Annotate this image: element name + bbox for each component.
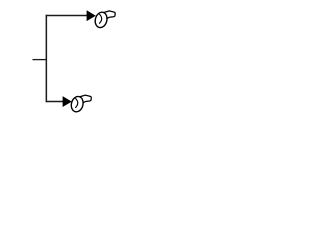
lamp bulb body	[94, 11, 109, 29]
wire (bottom branch)	[46, 101, 63, 103]
arrowhead (top)	[87, 11, 95, 20]
node A (input stub)	[33, 59, 48, 61]
arrowhead (bottom)	[63, 97, 71, 106]
lamp glass highlight arc	[75, 98, 77, 108]
lamp (bottom)	[70, 95, 92, 113]
lamp base cap	[79, 95, 91, 103]
lamp base cap	[103, 11, 115, 19]
wire (top branch)	[46, 15, 87, 17]
lamp glass highlight arc	[99, 14, 101, 24]
wire (vertical branch)	[45, 15, 47, 102]
lamp bulb body	[70, 95, 85, 113]
lamp (top)	[94, 11, 116, 29]
